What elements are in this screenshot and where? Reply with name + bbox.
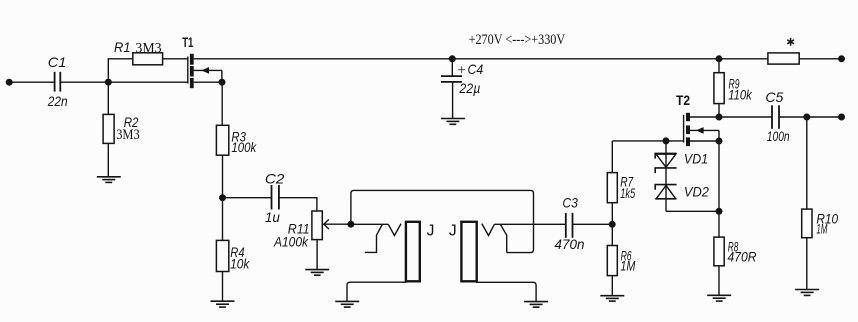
left jack plug body <box>406 222 420 281</box>
R11 wiper arrow <box>324 219 351 229</box>
resistor R1 <box>108 53 187 65</box>
resistor R2 <box>103 82 114 177</box>
label * <box>790 38 792 46</box>
node input terminal <box>6 79 13 86</box>
wire feedback loop to right jack switch <box>351 190 534 252</box>
wire C3 to node C <box>573 223 612 225</box>
svg-text:1M: 1M <box>816 222 827 237</box>
resistor * (series dropper) <box>768 53 799 64</box>
node R10 tap <box>803 114 810 121</box>
svg-text:+: + <box>458 62 466 78</box>
wire R7 to T2 gate <box>612 140 683 142</box>
node T1 source <box>219 79 226 86</box>
zener diode VD2 <box>655 185 676 199</box>
right jack plug body <box>461 222 476 281</box>
svg-text:100k: 100k <box>231 140 257 155</box>
wire C1 to node A <box>61 81 108 83</box>
wire input to C1 <box>9 81 54 83</box>
wire left jack sleeve to ground <box>347 282 407 301</box>
node rail right terminal <box>838 55 845 62</box>
svg-text:1k5: 1k5 <box>620 186 635 201</box>
node D junction (VD1 top) <box>663 137 670 144</box>
ground (R4) <box>211 301 235 307</box>
ground (R2) <box>97 177 121 183</box>
ground (left jack) <box>335 301 359 307</box>
svg-text:C2: C2 <box>265 172 285 187</box>
wire VD bottom to T2 source column <box>666 210 719 212</box>
wire rail to right terminal <box>799 58 841 60</box>
svg-text:+270V <--->+330V: +270V <--->+330V <box>469 32 566 48</box>
svg-text:3M3: 3M3 <box>135 41 161 57</box>
resistor R6 <box>607 224 617 295</box>
svg-text:J: J <box>427 223 435 240</box>
svg-text:1M: 1M <box>620 259 635 274</box>
node rail R9 tap <box>716 55 723 62</box>
node E junction (VD return) <box>716 208 723 215</box>
svg-text:22n: 22n <box>47 94 68 109</box>
node C4 tap <box>449 55 456 62</box>
transistor T2 <box>684 113 719 146</box>
ground (R10) <box>795 290 819 296</box>
node wiper junction <box>347 221 354 228</box>
svg-text:10k: 10k <box>230 257 250 272</box>
wire node A to T1 gate <box>108 81 187 83</box>
node T2 drain <box>716 114 723 121</box>
node output terminal <box>838 114 845 121</box>
capacitor C1 <box>55 72 61 92</box>
wire node A up to R1 <box>107 58 109 82</box>
right jack tip spring contact <box>482 224 495 236</box>
potentiometer R11 <box>312 211 322 270</box>
svg-text:100n: 100n <box>767 129 790 144</box>
svg-text:A100k: A100k <box>273 235 309 250</box>
wire R3 to node B <box>222 155 224 198</box>
capacitor C5 <box>772 105 779 129</box>
node A junction <box>105 79 112 86</box>
svg-text:1u: 1u <box>265 210 280 225</box>
wire right jack sleeve to ground <box>476 282 536 301</box>
svg-text:3M3: 3M3 <box>116 127 140 143</box>
capacitor C2 <box>272 185 279 210</box>
wire C2 to R11 <box>280 198 317 211</box>
svg-text:470R: 470R <box>728 249 757 264</box>
svg-text:470n: 470n <box>555 237 585 252</box>
capacitor C4 <box>441 59 462 119</box>
ground (R8) <box>707 295 731 301</box>
wire T2 source to R8 <box>718 141 720 237</box>
wire node B to C2 <box>223 197 271 199</box>
svg-text:R1: R1 <box>114 40 131 55</box>
resistor R3 <box>216 125 228 155</box>
resistor R4 <box>216 198 228 302</box>
resistor R10 <box>802 117 812 290</box>
left jack switch contact <box>365 224 383 252</box>
ground (C4) <box>441 119 465 125</box>
wire VD chain vertical <box>665 141 667 211</box>
svg-text:J: J <box>449 223 457 240</box>
ground (right jack) <box>524 302 548 308</box>
node T2 source <box>716 138 723 145</box>
svg-text:VD1: VD1 <box>684 151 708 166</box>
wire +HT rail <box>194 58 768 60</box>
wire right jack tip to C3 <box>494 223 565 225</box>
svg-text:C4: C4 <box>468 62 484 77</box>
svg-text:110k: 110k <box>728 88 752 103</box>
svg-text:C3: C3 <box>562 195 578 210</box>
resistor R9 <box>714 59 724 117</box>
svg-text:T2: T2 <box>676 93 690 108</box>
node B junction <box>219 194 226 201</box>
left jack tip spring contact <box>388 224 401 236</box>
wire C5 to output <box>780 116 842 118</box>
svg-text:22µ: 22µ <box>458 81 480 96</box>
resistor R8 <box>714 237 724 295</box>
svg-text:C1: C1 <box>48 55 67 70</box>
zener diode VD1 <box>655 153 676 173</box>
svg-text:VD2: VD2 <box>684 184 709 199</box>
wire T2 drain to C5 <box>719 116 771 118</box>
capacitor C3 <box>566 213 573 238</box>
svg-text:T1: T1 <box>182 35 194 50</box>
wire T1 source to R3 <box>221 82 223 125</box>
ground (R6) <box>600 296 624 301</box>
resistor R7 <box>607 141 617 224</box>
node C junction <box>609 221 616 228</box>
wire wiper node to left jack tip <box>351 223 388 225</box>
ground (R11) <box>305 270 329 276</box>
transistor T1 <box>188 54 222 88</box>
right jack switch contact <box>500 224 506 252</box>
svg-text:C5: C5 <box>765 90 783 105</box>
